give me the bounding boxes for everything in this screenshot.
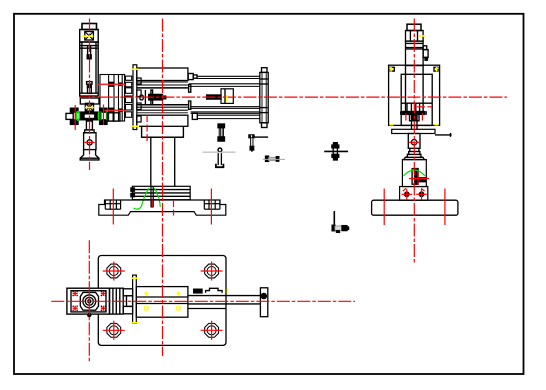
bottom rails xyxy=(137,104,188,106)
pin part: head ring xyxy=(218,148,222,152)
horizontal screw end xyxy=(276,157,279,162)
cap xyxy=(407,24,421,30)
screw tip xyxy=(250,146,254,150)
base plate top view xyxy=(98,256,226,346)
bottom flange band xyxy=(403,112,424,115)
clamp cylinder body xyxy=(80,42,99,96)
bolt hole BL xyxy=(107,323,121,337)
top view right yellow tick xyxy=(226,288,228,294)
end plate right xyxy=(262,68,268,73)
horizontal screw shaft xyxy=(269,157,277,160)
bolt hole BR xyxy=(205,323,219,337)
clamp block xyxy=(67,288,110,314)
top rod xyxy=(197,75,260,77)
left spherical washer (green) xyxy=(76,112,79,121)
tie rod centerline upper xyxy=(98,83,125,85)
X block with yellow xyxy=(85,103,93,111)
flared foot xyxy=(404,148,425,159)
right tabs xyxy=(423,46,427,50)
base plate side view xyxy=(372,200,458,215)
clamp block vertical centerline xyxy=(88,240,90,361)
bolt crossing line xyxy=(324,150,348,152)
bottom-right fitting xyxy=(192,113,197,119)
flange xyxy=(132,186,190,199)
mounting plate ticks xyxy=(131,68,139,70)
bottom box xyxy=(137,115,188,126)
bracket block xyxy=(142,127,184,138)
boss octagon xyxy=(80,292,98,310)
bolt hole TL xyxy=(107,264,121,278)
main horizontal cylinder body xyxy=(137,68,268,128)
pin with standpipe: vertical line xyxy=(333,211,335,226)
base notch centerline right xyxy=(210,189,212,225)
mounting plate xyxy=(133,65,141,130)
end bar xyxy=(260,288,267,317)
piston internals xyxy=(406,103,408,111)
left nut stack xyxy=(70,108,78,112)
horizontal screw: head xyxy=(266,156,269,159)
side view base bolt crosses xyxy=(402,193,413,195)
box with insert xyxy=(402,160,426,187)
flange left bolt xyxy=(131,188,135,191)
top box xyxy=(137,68,188,81)
tie rod centerline lower xyxy=(105,109,126,111)
screw support rod xyxy=(86,121,92,130)
clamp piston rod upper xyxy=(88,46,91,55)
right notch xyxy=(203,200,205,209)
bolt with line: blocks xyxy=(334,143,338,144)
clamp arm (black bar) xyxy=(79,112,99,120)
clamp block bolt corner marks xyxy=(73,291,107,311)
tie rod nuts (black) lower xyxy=(109,108,114,112)
locating pin bar xyxy=(150,186,152,207)
column xyxy=(150,137,152,186)
inner slot rect xyxy=(401,74,432,125)
screw support cylinder xyxy=(84,133,96,150)
clamp cylinder vertical centerline xyxy=(89,19,91,171)
flange bolt centerline left xyxy=(146,115,148,142)
main horizontal centerline front+side views xyxy=(79,96,507,98)
left notch xyxy=(104,200,106,209)
left arm end box xyxy=(66,113,73,119)
clamp piston rod lower xyxy=(87,82,92,85)
corner bolt squares xyxy=(390,67,394,71)
base top block xyxy=(400,187,428,201)
right arm bolt centerline xyxy=(103,105,105,126)
connector xyxy=(110,288,124,314)
adapter bar xyxy=(392,129,435,133)
side view head yellow tick xyxy=(419,35,425,37)
pin cup xyxy=(216,164,224,168)
tie-rod tabs at body right edge xyxy=(189,85,191,93)
side view short horizontal xyxy=(417,106,432,108)
side clamp block xyxy=(418,178,425,182)
rod xyxy=(188,295,261,297)
plate-to-body tabs xyxy=(137,78,141,84)
right nut stack xyxy=(100,108,107,112)
square plate xyxy=(389,65,440,125)
clamp cylinder cap xyxy=(82,24,97,30)
pin shaft xyxy=(217,153,219,165)
green dome xyxy=(404,170,426,176)
side view section arrows xyxy=(403,188,406,191)
side view main vertical centerline xyxy=(413,19,415,264)
locating pin red mark xyxy=(151,200,153,209)
small cylinder with circle xyxy=(408,134,420,149)
clamp cylinder head block xyxy=(80,30,99,43)
green profile curves xyxy=(134,188,161,209)
flange bolt centerline right lower xyxy=(173,200,175,216)
right spherical washers (green) xyxy=(98,112,101,121)
stud part: top nut xyxy=(218,124,225,128)
side view clamp red cross xyxy=(409,178,429,180)
left arm bolt centerline xyxy=(74,105,76,130)
clamp cylinder head inner square xyxy=(85,32,94,41)
top view flange bar ticks xyxy=(131,277,138,279)
piston yellow tick front view xyxy=(226,95,228,102)
body xyxy=(406,41,424,66)
top-right fitting xyxy=(188,74,193,80)
screw shaft xyxy=(251,138,253,147)
bolt hole crosses top view xyxy=(103,270,125,272)
clamp head yellow line xyxy=(82,35,93,37)
clevis tabs xyxy=(123,289,132,296)
left bracket stack between clamp and plate xyxy=(100,75,132,122)
bolt hole TR xyxy=(205,264,219,278)
cylinder body behind plate xyxy=(405,65,407,111)
screw line right xyxy=(254,136,268,138)
rod below flange xyxy=(410,114,420,120)
side view small circle cross xyxy=(409,141,421,143)
ladder tabs left of plate xyxy=(126,76,132,80)
piston block center xyxy=(221,89,233,104)
screw support circle cross xyxy=(85,141,95,143)
clamp block red plus marks xyxy=(73,291,106,311)
stud bottom nut xyxy=(218,137,225,141)
stud shaft xyxy=(219,128,223,137)
top view yellow squares xyxy=(145,307,148,310)
side view plate corner yellow marks xyxy=(390,67,393,72)
side view flange bolt centerlines xyxy=(405,113,407,120)
head block with hex flats xyxy=(406,31,424,42)
right arm end boxes xyxy=(107,113,113,121)
center mechanism xyxy=(140,95,143,100)
screw support foot xyxy=(80,150,99,160)
gray section lines xyxy=(98,85,285,160)
top view horizontal centerline xyxy=(51,300,355,302)
base notch centerline left xyxy=(112,189,114,225)
X block yellow line xyxy=(85,107,94,109)
top tie rails xyxy=(189,83,260,85)
marks on rod top xyxy=(194,289,202,293)
screw part: head xyxy=(249,135,254,138)
insert bar xyxy=(412,169,418,185)
pin body xyxy=(332,225,335,231)
tie rod nuts (black) upper xyxy=(109,82,114,86)
base plate front view xyxy=(99,200,226,215)
lower bracket and column xyxy=(131,127,190,208)
clamp cylinder bottom flange xyxy=(80,92,99,94)
top view yellow plus marks xyxy=(144,291,148,295)
flange bar vertical xyxy=(133,275,137,323)
lower block xyxy=(80,98,99,104)
slide body box xyxy=(136,287,188,318)
main vertical centerline front+top views xyxy=(162,19,164,357)
block bottom dot xyxy=(88,313,91,316)
side view base verticals xyxy=(383,189,385,226)
